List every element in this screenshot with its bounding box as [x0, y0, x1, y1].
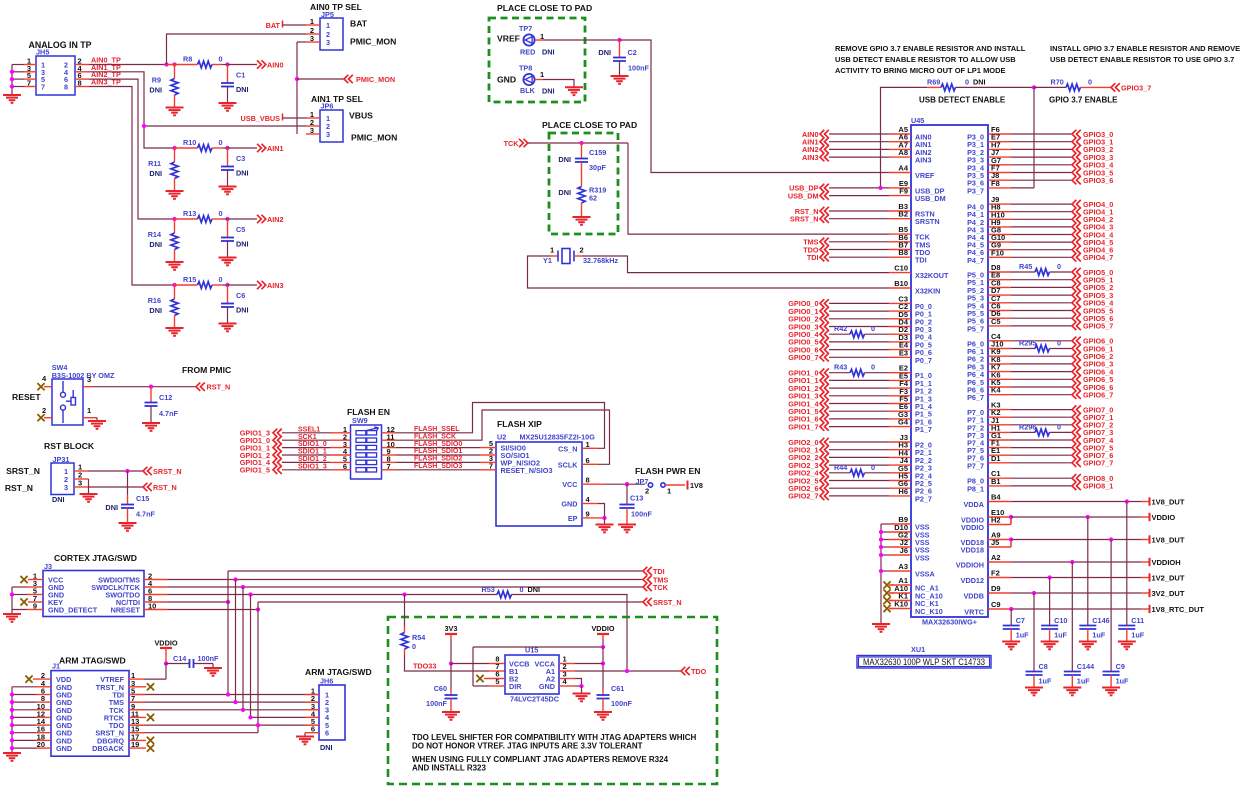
svg-text:P0_7: P0_7 — [915, 356, 932, 365]
svg-text:C60: C60 — [434, 684, 447, 693]
tag GPIO5_3 — [1011, 294, 1072, 296]
wire FLASH_SDIO3 — [396, 469, 480, 471]
svg-text:100nF: 100nF — [198, 654, 220, 663]
svg-text:R295: R295 — [1019, 339, 1036, 348]
junction PMIC_MON — [295, 77, 299, 81]
ground C7 — [1002, 642, 1020, 650]
svg-text:ACTIVITY TO BRING MICRO OUT OF: ACTIVITY TO BRING MICRO OUT OF LP1 MODE — [835, 66, 1006, 75]
svg-text:DNI: DNI — [149, 86, 162, 95]
svg-text:C6: C6 — [236, 291, 245, 300]
svg-text:0: 0 — [219, 138, 223, 147]
svg-text:SDIO1_1: SDIO1_1 — [298, 449, 327, 456]
svg-text:DNI: DNI — [528, 585, 541, 594]
wire JP6 pin2 to feed bus — [144, 125, 306, 127]
junction VDDIO DIR — [601, 645, 605, 649]
svg-text:3V2_DUT: 3V2_DUT — [1152, 589, 1185, 598]
wires J1 gnd pins — [36, 686, 51, 688]
svg-text:74LVC2T45DC: 74LVC2T45DC — [510, 695, 560, 704]
svg-text:P1_7: P1_7 — [915, 425, 932, 434]
no-connect J3 KEY — [28, 601, 43, 603]
svg-text:DNI: DNI — [542, 87, 555, 96]
svg-text:100nF: 100nF — [426, 699, 448, 708]
svg-text:TCK: TCK — [504, 139, 520, 148]
svg-text:SCLK: SCLK — [558, 460, 579, 469]
tag GPIO8_0 — [1011, 477, 1072, 479]
svg-text:U2: U2 — [497, 433, 506, 442]
svg-text:DO NOT HONOR VTREF. JTAG INPUT: DO NOT HONOR VTREF. JTAG INPUTS ARE 3.3V… — [412, 742, 643, 751]
svg-text:P4_7: P4_7 — [967, 256, 984, 265]
tag AIN2 — [257, 215, 266, 223]
no-connect J1 VDD — [33, 678, 51, 680]
ground TP8 — [565, 87, 583, 95]
no-connect J1 DBGACK — [129, 747, 146, 749]
svg-text:B4: B4 — [991, 493, 1001, 502]
svg-text:GPIO3_6: GPIO3_6 — [1083, 176, 1113, 185]
svg-text:R44: R44 — [834, 463, 847, 472]
wire FLASH_SDIO2 — [396, 461, 480, 463]
svg-text:JH5: JH5 — [36, 48, 49, 57]
capacitor C8 — [1033, 593, 1035, 672]
power tag 1V8_DUT — [1141, 501, 1150, 503]
ground R319 — [573, 217, 591, 225]
tag GPIO5_7 — [1011, 325, 1072, 327]
stub CS_N — [582, 447, 598, 449]
capacitor C13 — [626, 484, 628, 504]
wire VSS bus — [881, 523, 889, 525]
svg-text:K4: K4 — [991, 386, 1001, 395]
dashed box TDO level shifter — [388, 617, 717, 784]
svg-text:MAX32630IWG+: MAX32630IWG+ — [922, 618, 977, 627]
capacitor C60 — [450, 664, 452, 691]
svg-text:GPIO8_1: GPIO8_1 — [1083, 482, 1113, 491]
capacitor C6 (DNI) — [227, 285, 229, 304]
node AIN3 out — [225, 283, 229, 287]
svg-text:E3: E3 — [899, 348, 908, 357]
svg-text:BLK: BLK — [520, 86, 536, 95]
svg-text:C13: C13 — [630, 494, 643, 503]
svg-text:6: 6 — [586, 456, 590, 465]
wire JP31 pin1 SRST_N — [74, 470, 88, 472]
svg-text:B8: B8 — [898, 248, 908, 257]
svg-text:DNI: DNI — [149, 240, 162, 249]
ground R16 — [166, 328, 184, 336]
wire SWDIO/TMS to tag — [167, 579, 643, 581]
node AIN0 out — [225, 62, 229, 66]
junction USB_DP detect — [878, 186, 882, 190]
tag GPIO3_3 — [1011, 156, 1072, 158]
svg-text:GPIO6_7: GPIO6_7 — [1083, 391, 1113, 400]
no-connect J1 DBGRQ — [129, 739, 146, 741]
ground C13 — [618, 525, 636, 533]
tag GPIO6_2 — [1011, 355, 1072, 357]
ground C1 — [219, 103, 237, 111]
svg-text:RED: RED — [520, 48, 535, 57]
svg-text:SDIO1_2: SDIO1_2 — [298, 456, 327, 463]
svg-text:GPIO0_7: GPIO0_7 — [788, 353, 818, 362]
ground C146 — [1079, 642, 1097, 650]
svg-text:VDDIO: VDDIO — [961, 523, 984, 532]
wire VDDIO to VTREF — [165, 664, 167, 680]
svg-text:USB_DM: USB_DM — [788, 191, 819, 200]
wire J1 TCK — [129, 709, 319, 711]
wire power row 1V2_DUT — [1011, 577, 1141, 579]
svg-text:REMOVE GPIO 3.7 ENABLE RESISTO: REMOVE GPIO 3.7 ENABLE RESISTOR AND INST… — [835, 44, 1026, 53]
svg-text:DNI: DNI — [236, 240, 249, 249]
wire USB_VBUS pin1 — [283, 117, 306, 119]
stub SCLK — [582, 463, 598, 465]
svg-text:RST_N: RST_N — [5, 483, 33, 493]
tag GPIO3_0 — [1011, 133, 1072, 135]
capacitor C61 — [597, 695, 610, 699]
tag AIN3 — [257, 281, 266, 289]
ground JH5 — [3, 95, 21, 103]
tag GPIO6_5 — [1011, 378, 1072, 380]
junction C2 — [617, 38, 621, 42]
node row AIN3 — [172, 283, 176, 287]
svg-text:H6: H6 — [898, 487, 908, 496]
svg-text:DNI: DNI — [558, 155, 571, 164]
resistor R54 — [404, 595, 406, 627]
svg-text:GND: GND — [539, 682, 555, 691]
svg-text:VSS: VSS — [915, 554, 930, 563]
wire to tag AIN3 — [228, 284, 258, 286]
power tag VDDIO — [1141, 516, 1150, 518]
svg-text:VDDIOH: VDDIOH — [1152, 558, 1181, 567]
tag AIN1 — [257, 144, 266, 152]
svg-text:0: 0 — [965, 78, 969, 87]
wire VCCA — [559, 663, 575, 665]
svg-text:P6_7: P6_7 — [967, 393, 984, 402]
tag GPIO6_3 — [1011, 363, 1072, 365]
svg-text:VDDB: VDDB — [963, 592, 984, 601]
svg-text:TP8: TP8 — [519, 64, 532, 73]
svg-text:DNI: DNI — [558, 188, 571, 197]
svg-text:R9: R9 — [152, 76, 161, 85]
junction TDO net — [625, 669, 629, 673]
svg-text:DNI: DNI — [598, 48, 611, 57]
junction TDI JH6 — [226, 692, 230, 696]
svg-text:R70: R70 — [1051, 78, 1064, 87]
svg-text:RST BLOCK: RST BLOCK — [44, 441, 95, 451]
wire TCK — [528, 142, 628, 144]
svg-text:1V8: 1V8 — [690, 481, 703, 490]
wire to tag AIN2 — [228, 218, 258, 220]
no-connect J3 VCC — [28, 579, 43, 581]
svg-text:C1: C1 — [236, 71, 245, 80]
svg-text:A4: A4 — [898, 164, 908, 173]
tag GPIO4_0 — [1011, 203, 1072, 205]
bus vertical SRST_N — [257, 602, 259, 733]
dashed box TCK filter — [549, 133, 618, 234]
wire JP5 pin3 — [297, 41, 306, 43]
svg-text:C159: C159 — [589, 148, 606, 157]
svg-text:GND: GND — [561, 500, 577, 509]
junction TCK bus — [241, 585, 245, 589]
ground C11 — [1118, 642, 1136, 650]
capacitor C159 (DNI) — [581, 143, 583, 159]
ground SW4 — [88, 421, 106, 429]
svg-text:SRST_N: SRST_N — [6, 466, 40, 476]
svg-text:R16: R16 — [148, 296, 161, 305]
svg-text:3: 3 — [326, 38, 330, 47]
capacitor C9 — [1110, 540, 1112, 672]
svg-text:FLASH PWR EN: FLASH PWR EN — [635, 466, 700, 476]
ground C9 — [1102, 688, 1120, 696]
capacitor C1 (DNI) — [227, 65, 229, 84]
svg-text:AIN3: AIN3 — [802, 153, 819, 162]
wire VDD18 pin bracket — [1010, 540, 1012, 548]
svg-text:INSTALL GPIO 3.7 ENABLE RESIST: INSTALL GPIO 3.7 ENABLE RESISTOR AND REM… — [1050, 44, 1240, 53]
resistor R9 (DNI) — [174, 65, 176, 79]
svg-text:0: 0 — [219, 275, 223, 284]
wire TDO33 — [405, 655, 490, 671]
svg-text:1: 1 — [326, 21, 330, 30]
node row AIN1 — [172, 146, 176, 150]
tag GPIO4_5 — [1011, 241, 1072, 243]
svg-text:K10: K10 — [894, 600, 908, 609]
svg-text:J1: J1 — [52, 662, 60, 671]
svg-text:FLASH XIP: FLASH XIP — [497, 419, 542, 429]
junction USB_VBUS feed — [142, 124, 146, 128]
svg-text:R14: R14 — [148, 230, 161, 239]
wire BAT — [283, 24, 306, 26]
svg-text:F10: F10 — [991, 248, 1004, 257]
ground R9 — [166, 108, 184, 116]
svg-text:30pF: 30pF — [589, 163, 606, 172]
svg-text:FLASH_SDIO1: FLASH_SDIO1 — [414, 448, 462, 455]
wire P3_7 to R70 node — [1011, 187, 1034, 189]
svg-text:1uF: 1uF — [1092, 631, 1105, 640]
tag GPIO3_4 — [1011, 164, 1072, 166]
junction C13 — [625, 482, 629, 486]
wire SRST_N long — [258, 601, 643, 603]
svg-text:R8: R8 — [183, 55, 192, 64]
junction dots JH5 gnd bus — [10, 70, 14, 74]
svg-text:A2: A2 — [991, 553, 1001, 562]
svg-text:RESET: RESET — [12, 392, 41, 402]
svg-text:F9: F9 — [899, 187, 908, 196]
junction TMS JH6 — [233, 700, 237, 704]
svg-text:P5_7: P5_7 — [967, 324, 984, 333]
tag GPIO3_5 — [1011, 172, 1072, 174]
wire power row 1V8_DUT — [1011, 501, 1141, 503]
tag GPIO7_1 — [1011, 416, 1072, 418]
tag GPIO5_2 — [1011, 286, 1072, 288]
svg-text:DIR: DIR — [509, 682, 522, 691]
tag GPIO5_1 — [1011, 279, 1072, 281]
wire JP31 pin2 to gnd — [74, 478, 89, 480]
tag GPIO7_0 — [1011, 409, 1072, 411]
tag GPIO5_5 — [1011, 310, 1072, 312]
capacitor C2 (DNI) — [619, 40, 621, 58]
power tag 1V8_DUT — [1141, 539, 1150, 541]
junction TDI bus — [226, 600, 230, 604]
svg-text:GPIO5_7: GPIO5_7 — [1083, 322, 1113, 331]
wire power row 1V8_DUT — [1011, 539, 1141, 541]
wire TP8 to gnd — [535, 79, 543, 81]
svg-text:C15: C15 — [136, 494, 149, 503]
tag SRST_N — [143, 467, 152, 475]
wire JP31 pin3 RST_N — [74, 486, 88, 488]
resistor R319 (DNI) — [578, 187, 585, 204]
svg-text:FROM PMIC: FROM PMIC — [182, 365, 231, 375]
wire GND pin — [559, 685, 575, 687]
svg-text:EP: EP — [568, 514, 578, 523]
capacitor C144 — [1071, 562, 1073, 672]
svg-text:DNI: DNI — [105, 503, 118, 512]
svg-text:USB_VBUS: USB_VBUS — [241, 114, 281, 123]
wire J1 TDI — [129, 694, 319, 696]
svg-text:1uF: 1uF — [1116, 677, 1129, 686]
capacitor C12 — [150, 387, 152, 403]
tag GPIO6_4 — [1011, 371, 1072, 373]
svg-text:J6: J6 — [900, 546, 908, 555]
svg-text:0: 0 — [1057, 422, 1061, 431]
svg-text:U45: U45 — [911, 116, 924, 125]
svg-text:7: 7 — [489, 461, 493, 470]
svg-text:1uF: 1uF — [1039, 677, 1052, 686]
svg-text:DNI: DNI — [149, 306, 162, 315]
wire JH5 left gnd bus — [12, 64, 24, 66]
wire NRESET row — [167, 609, 258, 611]
wire FLASH_SDIO1 — [396, 454, 480, 456]
tag GPIO8_1 — [1011, 485, 1072, 487]
svg-text:3V3: 3V3 — [445, 624, 458, 633]
svg-text:FLASH_SDIO2: FLASH_SDIO2 — [414, 456, 462, 463]
svg-text:A8: A8 — [898, 148, 908, 157]
svg-text:GND: GND — [56, 744, 72, 753]
wire JP5 pin2 to AIN0 row — [167, 34, 307, 65]
ground C8 — [1025, 688, 1043, 696]
svg-text:6: 6 — [325, 729, 329, 738]
tag GPIO7_4 — [1011, 439, 1072, 441]
wire to tag AIN0 — [228, 64, 258, 66]
tag TCK — [643, 583, 652, 591]
wire JP7 to V8 — [666, 484, 686, 486]
svg-text:BAT: BAT — [266, 21, 281, 30]
svg-text:0: 0 — [871, 363, 875, 372]
svg-text:VDD18: VDD18 — [961, 546, 984, 555]
tag GPIO4_1 — [1011, 211, 1072, 213]
junction 3V3 VCCB — [449, 661, 453, 665]
capacitor C10 — [1049, 578, 1051, 626]
wire AIN1_TP feed — [89, 72, 175, 148]
svg-text:0: 0 — [219, 209, 223, 218]
svg-text:R296: R296 — [1019, 422, 1036, 431]
svg-text:GPIO2_7: GPIO2_7 — [788, 492, 818, 501]
capacitor C11 — [1126, 502, 1128, 626]
svg-text:AIN1: AIN1 — [267, 144, 284, 153]
power tag V8 — [687, 481, 689, 490]
svg-text:GPIO 3.7 ENABLE: GPIO 3.7 ENABLE — [1049, 96, 1118, 105]
svg-text:USB DETECT ENABLE: USB DETECT ENABLE — [919, 96, 1006, 105]
junction TDO JH6 — [248, 715, 252, 719]
svg-text:USB_DM: USB_DM — [915, 194, 946, 203]
tag GPIO4_4 — [1011, 234, 1072, 236]
wire AIN0_TP — [89, 64, 167, 66]
svg-text:C9: C9 — [1116, 662, 1125, 671]
wire to PMIC_MON tag — [297, 78, 344, 80]
svg-text:MAX32630 100P WLP SKT C14733: MAX32630 100P WLP SKT C14733 — [863, 657, 985, 667]
wire to tag AIN1 — [228, 147, 258, 149]
capacitor C15 (DNI) — [127, 471, 129, 495]
SW9 right stubs — [382, 432, 397, 434]
svg-text:4.7nF: 4.7nF — [159, 409, 179, 418]
svg-text:0: 0 — [520, 585, 524, 594]
svg-text:C8: C8 — [1039, 662, 1048, 671]
junction VDDIO VCCA — [601, 661, 605, 665]
tag GPIO7_5 — [1011, 447, 1072, 449]
ground C2 — [611, 76, 629, 84]
wire FLASH_SDIO0 — [396, 447, 480, 449]
ground JP31 pin2 — [80, 494, 98, 502]
svg-text:VSSA: VSSA — [915, 570, 936, 579]
svg-text:PLACE CLOSE TO PAD: PLACE CLOSE TO PAD — [542, 120, 637, 130]
svg-text:0: 0 — [1057, 262, 1061, 271]
svg-text:0: 0 — [1088, 78, 1092, 87]
svg-text:2: 2 — [580, 246, 584, 255]
svg-text:8: 8 — [64, 83, 68, 92]
wire power row 3V2_DUT — [1011, 592, 1141, 594]
svg-text:Y1: Y1 — [543, 256, 552, 265]
junction C15 — [125, 469, 129, 473]
tag GPIO3_6 — [1011, 179, 1072, 181]
svg-text:AND INSTALL R323: AND INSTALL R323 — [412, 764, 486, 773]
junction J3 gnd — [10, 592, 14, 596]
ground C3 — [219, 187, 237, 195]
svg-text:USB DETECT ENABLE RESISTOR TO: USB DETECT ENABLE RESISTOR TO ALLOW USB — [835, 55, 1016, 64]
svg-text:3: 3 — [78, 479, 82, 488]
svg-text:C9: C9 — [991, 600, 1001, 609]
tag GPIO4_2 — [1011, 218, 1072, 220]
svg-text:FLASH_SDIO0: FLASH_SDIO0 — [414, 441, 462, 448]
svg-text:TP7: TP7 — [519, 24, 532, 33]
svg-text:PMIC_MON: PMIC_MON — [351, 133, 397, 143]
svg-text:32.768kHz: 32.768kHz — [583, 256, 618, 265]
svg-text:J3: J3 — [44, 562, 52, 571]
wire AIN2_TP feed — [89, 79, 175, 219]
svg-text:TDI: TDI — [807, 253, 819, 262]
svg-text:0: 0 — [412, 642, 416, 651]
wire AIN3_TP feed — [89, 87, 175, 286]
svg-text:B2: B2 — [898, 210, 908, 219]
tag AIN0 — [257, 60, 266, 68]
svg-text:C12: C12 — [159, 393, 172, 402]
bus vertical TDO — [250, 595, 252, 718]
ground U15 — [573, 694, 591, 702]
wire J1 TMS — [129, 701, 319, 703]
ground C15 — [119, 523, 137, 531]
svg-text:NC_K10: NC_K10 — [915, 607, 943, 616]
ground C5 — [219, 258, 237, 266]
svg-text:SRST_N: SRST_N — [153, 467, 182, 476]
svg-text:F8: F8 — [991, 179, 1000, 188]
svg-text:GPIO1_5: GPIO1_5 — [240, 466, 270, 475]
svg-text:VDDA: VDDA — [963, 500, 984, 509]
svg-text:4.7nF: 4.7nF — [136, 510, 156, 519]
svg-text:DNI: DNI — [320, 743, 333, 752]
wire PMIC_MON bus — [296, 42, 298, 134]
power tag VDDIOH — [1141, 561, 1150, 563]
svg-text:C144: C144 — [1077, 662, 1094, 671]
svg-text:B1: B1 — [991, 477, 1001, 486]
svg-text:AIN1 TP SEL: AIN1 TP SEL — [311, 94, 363, 104]
svg-text:TCK: TCK — [653, 583, 669, 592]
ground C61 — [594, 712, 612, 720]
wire VDDIO down — [602, 647, 604, 690]
power tag 1V2_DUT — [1141, 577, 1150, 579]
no-connect J1 TRST_N — [128, 686, 146, 688]
